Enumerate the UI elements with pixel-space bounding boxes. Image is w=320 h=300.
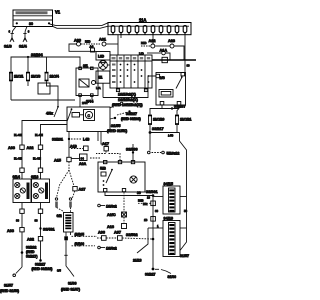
wire fuse to connector A22 (152, 35, 154, 44)
wire 6/2 down (65, 232, 67, 236)
svg-text:BL-GN: BL-GN (35, 133, 43, 137)
wire down to 5/10:12 (149, 133, 151, 151)
relay 3/1 (76, 64, 98, 96)
svg-text:33/227: 33/227 (35, 262, 45, 266)
svg-text:3/5: 3/5 (57, 269, 61, 273)
connector A1A square on line (162, 57, 167, 62)
svg-text:RED: RED (85, 40, 91, 44)
svg-text:(RHD 33/232): (RHD 33/232) (32, 267, 53, 271)
fuse 11C/4 (45, 57, 59, 81)
fuse box 11A strip (108, 23, 191, 35)
connector A2/C (107, 212, 127, 217)
wire relay pin 85 down (161, 105, 163, 109)
svg-text:33/227): 33/227) (26, 255, 38, 259)
svg-text:A32: A32 (27, 238, 34, 242)
wire node to fuses (150, 109, 162, 116)
svg-text:A33: A33 (7, 229, 14, 233)
wire hazard to left lamp R (41, 125, 68, 146)
svg-text:(RHD 31/51): (RHD 31/51) (107, 129, 128, 133)
node 33/207 (171, 107, 173, 109)
wire relay pin stub (91, 97, 93, 100)
left loop top wire (11, 57, 80, 100)
flasher relay 5/B (98, 161, 145, 193)
node 33/227 bottom right (152, 268, 155, 271)
bulb unit 6/2 (57, 213, 74, 233)
svg-text:BL-GN: BL-GN (33, 157, 41, 161)
svg-text:33/207: 33/207 (174, 105, 186, 109)
svg-text:30: 30 (29, 22, 33, 26)
svg-text:A22: A22 (149, 39, 156, 43)
svg-text:33/502: 33/502 (126, 233, 138, 237)
svg-text:A15: A15 (54, 159, 61, 163)
node 33/204 (27, 56, 29, 58)
fuses in strip (111, 26, 187, 35)
connector A33 upper (8, 145, 24, 150)
connector A22 (141, 39, 155, 48)
svg-text:3/44: 3/44 (86, 100, 94, 104)
svg-text:30: 30 (137, 191, 141, 195)
connector square rail1 (20, 168, 24, 172)
svg-text:30: 30 (187, 64, 191, 68)
connector A16 on rail (151, 217, 156, 222)
svg-text:33/217: 33/217 (152, 127, 164, 131)
svg-text:A61: A61 (99, 38, 106, 42)
svg-text:31/57: 31/57 (4, 284, 13, 288)
svg-text:3/1: 3/1 (83, 64, 88, 68)
connector A32 upper (27, 145, 43, 150)
svg-text:33/401: 33/401 (43, 228, 55, 232)
svg-text:33/227: 33/227 (145, 273, 155, 277)
wire from V1 to ground 31/3 (12, 27, 16, 38)
fuse 11C/21 (175, 115, 191, 125)
wire hazard pin down 1 (97, 132, 99, 142)
svg-text:(RHD 31/56): (RHD 31/56) (0, 289, 19, 293)
wire node to fuse 11C/3 (27, 57, 29, 72)
connector dark square (64, 236, 68, 240)
wire relay pin 87 down (177, 105, 179, 115)
flasher feed dashes (90, 157, 101, 159)
node 33/227 left (39, 259, 42, 262)
svg-text:5/B: 5/B (100, 167, 106, 171)
svg-text:A1A: A1A (160, 49, 168, 53)
wire from V1 to ground 31/4 (25, 27, 27, 38)
wire fuse to ignition table (117, 44, 119, 55)
svg-text:30: 30 (155, 209, 159, 213)
wire seal ticks (11, 33, 14, 35)
wire 4/1 to bottom line (102, 83, 104, 97)
component 4/1 box (96, 69, 110, 83)
wire strip to junction (117, 35, 119, 44)
wire relay to hazard switch (79, 97, 81, 108)
node 33/226 (117, 112, 128, 115)
svg-text:A32: A32 (27, 146, 34, 150)
svg-text:4/1: 4/1 (98, 76, 103, 80)
svg-text:31/4: 31/4 (19, 44, 28, 49)
svg-text:84: 84 (81, 156, 85, 160)
wire to 31/66 (65, 240, 67, 266)
lamp 6/14 (13, 175, 32, 203)
ignition lamp symbol (99, 60, 110, 69)
svg-text:A36: A36 (98, 231, 105, 235)
connector square rail2 (38, 168, 42, 172)
svg-text:1-50: 1-50 (168, 134, 174, 138)
wire fuse to line A1A (184, 35, 186, 60)
svg-text:L8D: L8D (98, 55, 105, 59)
svg-text:A9A: A9A (79, 162, 87, 166)
svg-text:BR.: BR. (143, 202, 148, 206)
wire below lamps (21, 203, 23, 210)
wire 34/15 pin b to right rail (180, 196, 187, 198)
terminal 31/4 (23, 38, 27, 43)
svg-text:11A: 11A (139, 18, 146, 23)
wire ignition to relay 2/6 (103, 76, 156, 98)
svg-text:6/2: 6/2 (57, 214, 62, 218)
main right rail down (152, 196, 154, 270)
svg-text:(RHD 10/11B:2(X)): (RHD 10/11B:2(X)) (112, 103, 143, 107)
svg-text:31/3: 31/3 (4, 44, 13, 49)
svg-text:50: 50 (184, 209, 188, 213)
svg-text:4/5x: 4/5x (46, 112, 53, 116)
svg-text:6/13: 6/13 (31, 175, 38, 179)
switch 4/5x (46, 106, 59, 117)
svg-text:BL-GN: BL-GN (14, 157, 22, 161)
svg-text:A33: A33 (8, 146, 15, 150)
component L8D box (96, 52, 110, 61)
svg-text:1B: 1B (144, 218, 148, 222)
wire rail2 down (40, 241, 42, 260)
diode unit 34/15 (163, 182, 180, 214)
hazard switch 3/44 (67, 100, 110, 132)
branch terminals (55, 198, 57, 200)
svg-text:(RHD 31/67): (RHD 31/67) (61, 287, 80, 291)
svg-text:L4B: L4B (83, 138, 90, 142)
svg-text:A37: A37 (79, 188, 86, 192)
connector A4 (90, 45, 95, 53)
lamp 6/13 (31, 175, 50, 203)
node 33/231 (68, 138, 70, 140)
wire hazard pin down 2 (101, 132, 106, 147)
ignition pins (117, 88, 119, 91)
svg-text:(RHD 33/202): (RHD 33/202) (121, 117, 141, 121)
connector A15 (54, 157, 71, 162)
svg-text:34/15: 34/15 (164, 182, 174, 186)
wire hazard to 10/115 reference (110, 104, 120, 109)
svg-text:2/6: 2/6 (160, 76, 165, 80)
fuse 11C/1 (9, 72, 23, 81)
wire to 34/19 pin 1 (148, 227, 163, 229)
svg-text:33/232: 33/232 (26, 246, 36, 250)
connector A23 left (69, 39, 101, 52)
connector A32 lower (27, 237, 43, 242)
svg-text:31/66: 31/66 (68, 281, 77, 285)
svg-text:11C/4: 11C/4 (50, 75, 59, 79)
connector BR on rail (151, 201, 156, 206)
node 31/55 (110, 118, 114, 119)
svg-text:(10)85: (10)85 (75, 232, 85, 236)
svg-text:33/231: 33/231 (52, 138, 63, 142)
wire rail1 down (21, 232, 23, 267)
node 33/401 (39, 227, 41, 229)
diode unit 34/19 (163, 217, 180, 257)
wire right rail to 34/19 corner (180, 228, 187, 251)
wire A15 branches (68, 162, 70, 170)
svg-text:98: 98 (35, 219, 39, 223)
fuse 11C/3 (26, 72, 40, 81)
connector A23 (155, 39, 184, 60)
left loop bottom wire (11, 99, 75, 101)
svg-text:33/204: 33/204 (31, 53, 44, 57)
wire L8D / connector A1A (139, 49, 170, 60)
svg-text:33/301: 33/301 (146, 190, 158, 194)
svg-text:(10)86: (10)86 (75, 242, 85, 246)
relay 2/6 (156, 73, 186, 106)
switch 31/57 (16, 267, 22, 274)
wire flasher to A2/C (123, 192, 125, 212)
wire 33/217 row (150, 132, 180, 134)
svg-text:19/15:2(X): 19/15:2(X) (118, 93, 137, 97)
dashed row (10)85 (72, 235, 98, 237)
component V1 (battery/fuse unit) (13, 10, 53, 27)
node line 15 feed (thick horizontal) (152, 59, 196, 61)
svg-text:11C/21: 11C/21 (180, 118, 191, 122)
svg-text:31/57: 31/57 (180, 254, 189, 258)
svg-text:A17: A17 (102, 142, 109, 146)
svg-text:33/227: 33/227 (126, 112, 137, 116)
svg-text:A37: A37 (114, 231, 121, 235)
wire stub 21/13 (137, 228, 148, 253)
svg-text:10/115:2(X): 10/115:2(X) (118, 98, 139, 102)
wire hazard to left lamp L (22, 121, 67, 146)
svg-text:A4: A4 (90, 45, 94, 49)
fuse 11C/20 (148, 115, 164, 125)
wire left lamp rail 1 (21, 149, 23, 168)
wire left lamp rail 2 (40, 149, 42, 168)
svg-text:31/55: 31/55 (111, 124, 121, 128)
wire hazard column to A15 (68, 132, 70, 158)
svg-text:A23: A23 (168, 39, 175, 43)
svg-text:33/300: 33/300 (126, 148, 138, 152)
svg-text:34/19: 34/19 (164, 217, 174, 221)
svg-text:11C/20: 11C/20 (153, 118, 164, 122)
dashed row (10)86 (72, 245, 96, 247)
bus bar in strip (108, 25, 189, 27)
wire 34/19 pin right (180, 227, 187, 229)
reference 18/8:2 (98, 246, 117, 250)
svg-text:A1B: A1B (70, 145, 77, 149)
connector A61 (99, 38, 118, 47)
svg-text:RHB: RHB (138, 199, 144, 203)
reference 18/3:2 (98, 204, 117, 208)
connector A17 (102, 142, 109, 151)
connector row A36 A37 33/502 (97, 231, 154, 241)
node 5/10:12 (148, 151, 180, 155)
wire A17 to flasher (96, 151, 106, 154)
wire V1 to fuse strip (double line) (50, 23, 109, 26)
wire relay feed 30 (184, 60, 186, 73)
svg-text:(RHD: (RHD (26, 250, 35, 254)
svg-text:V1: V1 (55, 10, 61, 15)
svg-text:A16: A16 (107, 225, 114, 229)
svg-text:RED: RED (141, 41, 147, 45)
svg-text:18/8:2: 18/8:2 (106, 247, 117, 251)
svg-text:98: 98 (16, 219, 20, 223)
wire 11C/4 to switch (47, 81, 59, 107)
svg-text:A2/C: A2/C (107, 213, 116, 217)
svg-text:BL-GN: BL-GN (14, 133, 22, 137)
wire flasher 30 output (105, 192, 153, 196)
svg-text:18/3:2: 18/3:2 (106, 205, 117, 209)
wire right rail to 34/15 (180, 133, 187, 229)
connector A37 mid (73, 187, 77, 191)
svg-text:5/10:12: 5/10:12 (167, 152, 180, 156)
svg-text:31/66: 31/66 (168, 275, 177, 279)
terminal 31/3 (10, 38, 14, 43)
svg-text:21/13: 21/13 (133, 259, 142, 263)
connector A33 lower (7, 228, 24, 234)
small box lower (38, 83, 50, 94)
component A9A (71, 154, 87, 166)
svg-text:11C/1: 11C/1 (14, 75, 23, 79)
connector A16 (107, 224, 127, 230)
wire rail to 34/15 pin a (153, 196, 163, 198)
svg-text:6/14: 6/14 (13, 175, 21, 179)
ignition switch table (110, 55, 152, 88)
node 33/233 (21, 251, 24, 254)
svg-text:11C/3: 11C/3 (31, 75, 40, 79)
svg-text:L3A: L3A (96, 86, 101, 90)
wire 11C/3 down (27, 81, 29, 86)
